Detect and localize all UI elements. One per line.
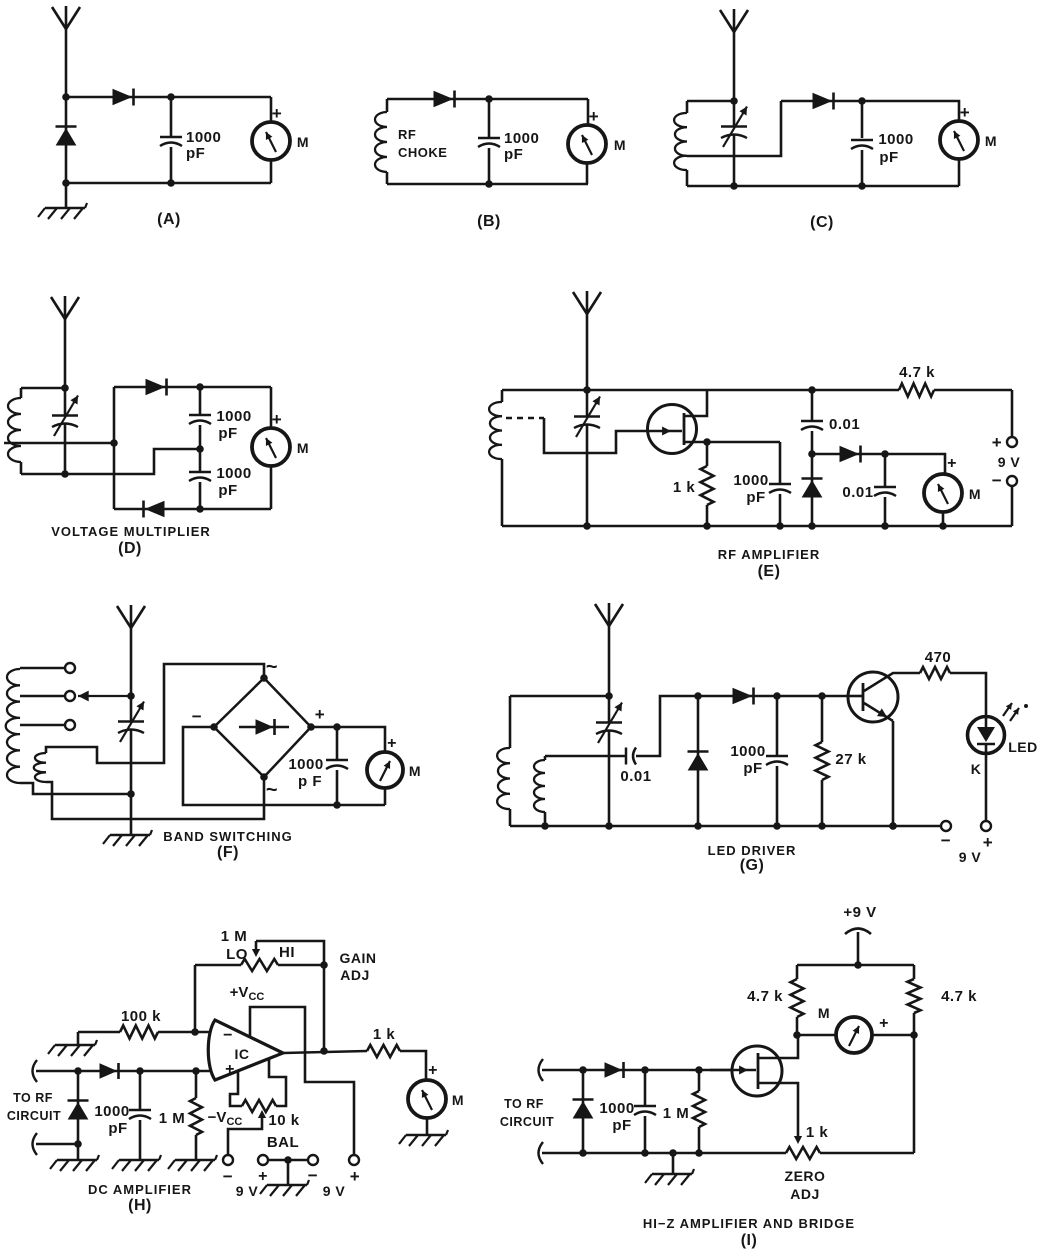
node E rail	[776, 522, 784, 530]
wire meter branch D	[270, 387, 273, 428]
node E rail	[703, 522, 711, 530]
battery terminal - E	[1007, 476, 1017, 486]
node B1	[485, 95, 493, 103]
meter M (A)	[252, 122, 290, 160]
node bridge top	[260, 674, 268, 682]
node G rail	[773, 822, 781, 830]
node E rail	[808, 522, 816, 530]
wire meter bottom A	[270, 160, 273, 183]
resistor 1k H	[367, 1045, 400, 1057]
wire noninverting input H	[33, 1060, 38, 1082]
node A2	[167, 93, 175, 101]
svg-text:+9 V: +9 V	[843, 904, 876, 921]
link coil L2 (F)	[34, 753, 46, 782]
node A1	[62, 93, 70, 101]
meter M (I)	[836, 1017, 872, 1053]
svg-text:100 k: 100 k	[121, 1008, 161, 1025]
node G rail	[694, 822, 702, 830]
svg-text:~: ~	[266, 779, 278, 801]
wire coil bottom F	[20, 783, 131, 794]
svg-text:−VCC: −VCC	[208, 1109, 243, 1128]
wire bottom rail G	[510, 825, 940, 828]
svg-text:0.01: 0.01	[620, 768, 651, 785]
svg-text:+: +	[350, 1167, 360, 1186]
ground H 1M	[175, 1159, 215, 1161]
op-amp IC (H)	[208, 1020, 283, 1080]
node E1	[583, 386, 591, 394]
svg-text:470: 470	[925, 649, 952, 666]
potentiometer 1M H	[194, 965, 197, 1032]
node G1	[605, 692, 613, 700]
capacitor 1000pF D upper	[199, 387, 202, 414]
wire top rail B	[387, 98, 588, 101]
wire meter left I	[797, 1034, 836, 1037]
svg-text:−: −	[308, 1166, 318, 1185]
node D3	[196, 383, 204, 391]
node I3	[910, 1031, 918, 1039]
svg-text:pF: pF	[612, 1117, 631, 1134]
LED (G)	[968, 717, 1005, 754]
shunt diode A	[65, 97, 68, 183]
battery clip +9V I	[845, 929, 871, 935]
ground H cap	[119, 1159, 159, 1161]
meter M (C)	[940, 121, 978, 159]
wire output H	[283, 1051, 367, 1053]
tuning coil D	[20, 388, 23, 398]
tuning coil E	[501, 390, 504, 402]
resistor 100k H	[78, 1031, 120, 1034]
terminal tap2 F	[65, 691, 75, 701]
svg-text:1 k: 1 k	[373, 1026, 396, 1043]
resistor 1M I	[698, 1070, 701, 1091]
svg-text:pF: pF	[504, 146, 523, 163]
JFET Q (I)	[732, 1046, 782, 1096]
node G4	[818, 692, 826, 700]
svg-text:LED DRIVER: LED DRIVER	[708, 843, 797, 858]
zener diode G	[697, 696, 700, 826]
wire top rail I	[797, 964, 914, 967]
svg-text:−: −	[992, 471, 1002, 490]
wire source E	[684, 441, 780, 444]
capacitor 1000pF E	[779, 442, 782, 483]
svg-text:27 k: 27 k	[835, 751, 866, 768]
resistor 27k G	[821, 696, 824, 742]
potentiometer 1k ZERO ADJ I	[786, 1147, 820, 1159]
svg-text:+: +	[428, 1062, 438, 1079]
svg-text:pF: pF	[743, 760, 762, 777]
wire collector G	[864, 673, 920, 691]
svg-text:1 k: 1 k	[806, 1124, 829, 1141]
wire bottom rail E	[502, 525, 1012, 528]
meter M (H)	[408, 1080, 446, 1118]
diode D1 (top)	[146, 380, 164, 395]
svg-text:−: −	[192, 707, 202, 726]
wire right vertical I	[913, 1035, 916, 1153]
wire ground lead H	[77, 1144, 80, 1159]
resistor 4.7k E	[899, 384, 934, 397]
node H3	[74, 1067, 82, 1075]
pot wiper H	[255, 941, 258, 951]
node D4	[196, 445, 204, 453]
svg-text:1000: 1000	[216, 408, 251, 425]
svg-text:0.01: 0.01	[842, 484, 873, 501]
wire bottom rail D	[114, 508, 271, 511]
wire link to cap G	[545, 755, 626, 758]
variable capacitor G	[596, 721, 622, 723]
wire link bottom F	[46, 777, 264, 819]
svg-text:(D): (D)	[118, 540, 142, 557]
svg-text:M: M	[297, 134, 309, 150]
svg-text:1000: 1000	[878, 131, 913, 148]
wire drain I	[758, 1035, 798, 1058]
svg-text:(C): (C)	[810, 214, 834, 231]
svg-text:pF: pF	[218, 482, 237, 499]
node H1	[191, 1028, 199, 1036]
zener diode H	[77, 1071, 80, 1144]
wire gate path E	[544, 418, 649, 453]
battery terminal + E	[1011, 390, 1014, 436]
svg-text:1 M: 1 M	[221, 928, 248, 945]
node F1	[127, 692, 135, 700]
svg-text:CHOKE: CHOKE	[398, 145, 447, 160]
svg-text:1000: 1000	[730, 743, 765, 760]
zener diode E	[811, 454, 814, 526]
meter M (E)	[924, 474, 962, 512]
svg-text:RF AMPLIFIER: RF AMPLIFIER	[718, 547, 821, 562]
node I8	[641, 1149, 649, 1157]
svg-text:BAND SWITCHING: BAND SWITCHING	[163, 829, 293, 844]
capacitor 0.01 G (series)	[625, 748, 628, 765]
svg-text:9 V: 9 V	[959, 849, 982, 865]
node I9	[669, 1149, 677, 1157]
node I5	[641, 1066, 649, 1074]
wire output rail C	[862, 101, 959, 121]
wire LED to battery G	[985, 753, 988, 820]
node D1	[61, 384, 69, 392]
node H6	[74, 1140, 82, 1148]
svg-text:+: +	[272, 410, 282, 429]
pot wiper 10k H	[258, 1110, 266, 1118]
variable capacitor E	[586, 390, 589, 416]
ground H input upper	[77, 1032, 80, 1044]
node E4	[808, 450, 816, 458]
node G rail	[541, 822, 549, 830]
svg-text:pF: pF	[218, 425, 237, 442]
wire +Vcc H	[250, 1007, 354, 1155]
wire tap3 F	[20, 724, 64, 727]
meter M (B)	[568, 125, 606, 163]
node G rail	[889, 822, 897, 830]
wire link coil bottom G	[544, 812, 547, 826]
node G5	[889, 822, 897, 830]
wire coil tap C	[687, 101, 781, 156]
tuning coil G	[509, 696, 512, 748]
node bridge left	[210, 723, 218, 731]
wire detector rail G	[698, 695, 848, 698]
svg-text:HI: HI	[279, 944, 295, 961]
svg-text:p F: p F	[298, 773, 322, 790]
capacitor 1000pF D lower	[199, 449, 202, 471]
svg-text:1000: 1000	[504, 130, 539, 147]
wire meter ground H	[426, 1118, 429, 1134]
node bridge bottom	[260, 773, 268, 781]
terminal tap3 F	[65, 720, 75, 730]
wire input I	[539, 1059, 544, 1081]
ground F	[110, 834, 150, 836]
svg-text:GAIN: GAIN	[340, 950, 377, 966]
wire meter bottom E	[942, 512, 945, 526]
wire meter branch A	[270, 97, 273, 122]
capacitor 0.01 E upper	[811, 390, 814, 420]
antenna (E)	[586, 291, 589, 390]
node H4	[136, 1067, 144, 1075]
node F3	[333, 723, 341, 731]
wire emitter G	[864, 703, 893, 721]
svg-text:(E): (E)	[758, 563, 781, 580]
svg-text:1 k: 1 k	[673, 479, 696, 496]
wire bottom rail I	[539, 1142, 544, 1164]
node I7	[579, 1149, 587, 1157]
node D2	[110, 439, 118, 447]
wire cap to rail G	[636, 696, 698, 756]
wire antenna bottom G	[608, 696, 611, 722]
svg-text:−: −	[223, 1167, 233, 1186]
wire antenna ground F	[130, 794, 133, 834]
battery terminal +9V H	[349, 1155, 359, 1165]
ground I	[652, 1173, 692, 1175]
wire tap1 F	[20, 667, 64, 670]
svg-text:pF: pF	[879, 149, 898, 166]
battery terminal - G	[941, 821, 951, 831]
transistor Q1 NPN (G)	[848, 672, 898, 722]
node C2	[858, 97, 866, 105]
svg-text:M: M	[297, 440, 309, 456]
node E5	[881, 450, 889, 458]
node C4	[858, 182, 866, 190]
wire top rail A	[66, 96, 271, 99]
wire gain adj H	[323, 965, 326, 1051]
capacitor 1000pF H	[139, 1071, 142, 1109]
svg-text:1000: 1000	[94, 1103, 129, 1120]
antenna (A)	[65, 6, 68, 97]
node E rail	[881, 522, 889, 530]
variable capacitor F	[130, 696, 133, 721]
svg-text:(H): (H)	[128, 1197, 152, 1214]
svg-text:+: +	[225, 1061, 235, 1078]
wire meter branch B	[587, 99, 590, 125]
svg-text:+: +	[272, 104, 282, 123]
wire meter bottom B	[586, 163, 589, 184]
wire left vertical D	[113, 387, 116, 509]
svg-text:LO: LO	[226, 946, 248, 963]
svg-text:ADJ: ADJ	[790, 1186, 820, 1202]
svg-text:DC AMPLIFIER: DC AMPLIFIER	[88, 1182, 192, 1197]
svg-text:HI−Z AMPLIFIER AND BRIDGE: HI−Z AMPLIFIER AND BRIDGE	[643, 1216, 855, 1231]
band coil L1 (F)	[6, 669, 20, 783]
svg-text:M: M	[409, 763, 421, 779]
node E2	[808, 386, 816, 394]
wire meter bottom D	[270, 466, 273, 509]
node I10	[695, 1149, 703, 1157]
wire tap2 F	[20, 695, 64, 698]
svg-text:CIRCUIT: CIRCUIT	[7, 1109, 61, 1123]
wire meter bottom F	[384, 788, 387, 805]
svg-text:TO RF: TO RF	[13, 1091, 53, 1105]
wire top rail E	[587, 389, 899, 392]
detector diode A	[113, 90, 131, 105]
wire cap lead A	[170, 97, 173, 136]
node B2	[485, 180, 493, 188]
resistor 470 G	[920, 667, 950, 679]
RF choke coil B	[386, 99, 389, 112]
ground A	[45, 207, 85, 209]
wire link top F	[46, 664, 264, 763]
wire coil top G	[510, 695, 609, 698]
svg-text:−: −	[941, 831, 951, 850]
svg-text:10 k: 10 k	[268, 1112, 299, 1129]
svg-text:IC: IC	[235, 1046, 250, 1062]
svg-text:ZERO: ZERO	[785, 1168, 826, 1184]
wire meter right I	[872, 1034, 914, 1037]
svg-text:0.01: 0.01	[829, 416, 860, 433]
node I6	[695, 1066, 703, 1074]
node I4	[579, 1066, 587, 1074]
svg-text:LED: LED	[1008, 739, 1038, 755]
node G3	[773, 692, 781, 700]
zener diode I	[582, 1070, 585, 1153]
svg-text:M: M	[452, 1092, 464, 1108]
node F4	[333, 801, 341, 809]
wire bottom rail C	[687, 185, 959, 188]
wire input lower H	[33, 1133, 38, 1155]
svg-text:pF: pF	[186, 145, 205, 162]
node A4	[167, 179, 175, 187]
wire top rail D	[114, 386, 271, 389]
resistor 1k E	[706, 442, 709, 466]
svg-text:1000: 1000	[733, 472, 768, 489]
wire drain E	[684, 390, 707, 416]
node H5	[192, 1067, 200, 1075]
svg-text:1000: 1000	[216, 465, 251, 482]
svg-text:9 V: 9 V	[236, 1183, 259, 1199]
svg-text:+: +	[992, 433, 1002, 452]
svg-text:M: M	[969, 486, 981, 502]
potentiometer 10k BAL H	[242, 1100, 276, 1112]
wire coil top D	[21, 387, 65, 390]
capacitor 0.01 E lower	[884, 454, 887, 486]
node D5	[61, 470, 69, 478]
wire diode rail C	[781, 100, 862, 103]
meter M (D)	[252, 428, 290, 466]
node G rail	[605, 822, 613, 830]
svg-text:1 M: 1 M	[159, 1110, 186, 1127]
node D6	[196, 505, 204, 513]
wire coil tap D	[4, 442, 114, 445]
wire detector E	[812, 454, 945, 475]
node F2	[127, 790, 135, 798]
svg-text:(I): (I)	[741, 1232, 758, 1249]
antenna (G)	[608, 603, 611, 696]
svg-text:+: +	[960, 103, 970, 122]
svg-text:M: M	[614, 137, 626, 153]
svg-text:(A): (A)	[157, 211, 181, 228]
wire source I	[758, 1083, 798, 1136]
diode B	[434, 92, 452, 107]
capacitor 1000pF I	[644, 1070, 647, 1105]
svg-text:(B): (B)	[477, 213, 501, 230]
diode D2 (bottom)	[146, 502, 164, 517]
svg-text:ADJ: ADJ	[340, 967, 370, 983]
svg-text:+: +	[258, 1168, 268, 1185]
svg-text:+: +	[947, 455, 957, 472]
link coil G	[534, 760, 545, 812]
wire ground lead A	[65, 183, 68, 207]
wire bridge negative F	[183, 727, 385, 805]
svg-text:pF: pF	[746, 489, 765, 506]
node C1	[730, 97, 738, 105]
svg-text:+: +	[589, 107, 599, 126]
wire battery center ground H	[287, 1160, 290, 1184]
svg-text:9 V: 9 V	[323, 1183, 346, 1199]
node E3	[703, 438, 711, 446]
diode I	[605, 1063, 621, 1077]
wire cap lead A2	[170, 147, 173, 183]
svg-text:4.7 k: 4.7 k	[899, 364, 935, 381]
svg-text:+VCC: +VCC	[230, 984, 265, 1003]
antenna (D)	[64, 296, 67, 388]
svg-text:~: ~	[266, 656, 278, 678]
antenna (F)	[130, 605, 133, 696]
svg-text:+: +	[983, 833, 993, 852]
svg-text:VOLTAGE MULTIPLIER: VOLTAGE MULTIPLIER	[51, 524, 211, 539]
wire tap jog D	[21, 449, 200, 474]
capacitor 1000pF C	[861, 101, 864, 138]
resistor 4.7k I right	[913, 965, 916, 979]
capacitor 1000pF G	[776, 696, 779, 755]
battery terminal -9V H	[223, 1155, 233, 1165]
wire ground lead I	[672, 1153, 675, 1173]
battery center terminals H	[258, 1155, 268, 1165]
svg-text:4.7 k: 4.7 k	[747, 988, 783, 1005]
bridge rectifier F	[214, 678, 311, 777]
tuning coil C	[686, 101, 689, 113]
svg-text:9 V: 9 V	[998, 454, 1021, 470]
wire coil top C	[687, 100, 734, 103]
resistor 4.7k I left	[796, 965, 799, 979]
capacitor 1000pF A	[160, 136, 182, 139]
node G rail	[818, 822, 826, 830]
svg-text:RF: RF	[398, 127, 416, 142]
svg-text:+: +	[879, 1015, 889, 1032]
capacitor 1000pF B	[488, 99, 491, 137]
diode C	[813, 94, 831, 109]
battery terminal + G	[981, 821, 991, 831]
svg-text:M: M	[818, 1005, 830, 1021]
antenna (C)	[733, 9, 736, 101]
svg-text:4.7 k: 4.7 k	[941, 988, 977, 1005]
terminal tap1 F	[65, 663, 75, 673]
wire +9V I	[857, 932, 860, 965]
wire meter bottom C	[958, 159, 961, 186]
LED light arrows	[1003, 703, 1012, 716]
variable capacitor C	[733, 101, 736, 126]
node E rail	[583, 522, 591, 530]
svg-text:(G): (G)	[740, 857, 765, 874]
svg-text:+: +	[387, 735, 397, 752]
svg-text:K: K	[971, 761, 982, 777]
node I1	[854, 961, 862, 969]
diode E (series)	[840, 447, 858, 462]
